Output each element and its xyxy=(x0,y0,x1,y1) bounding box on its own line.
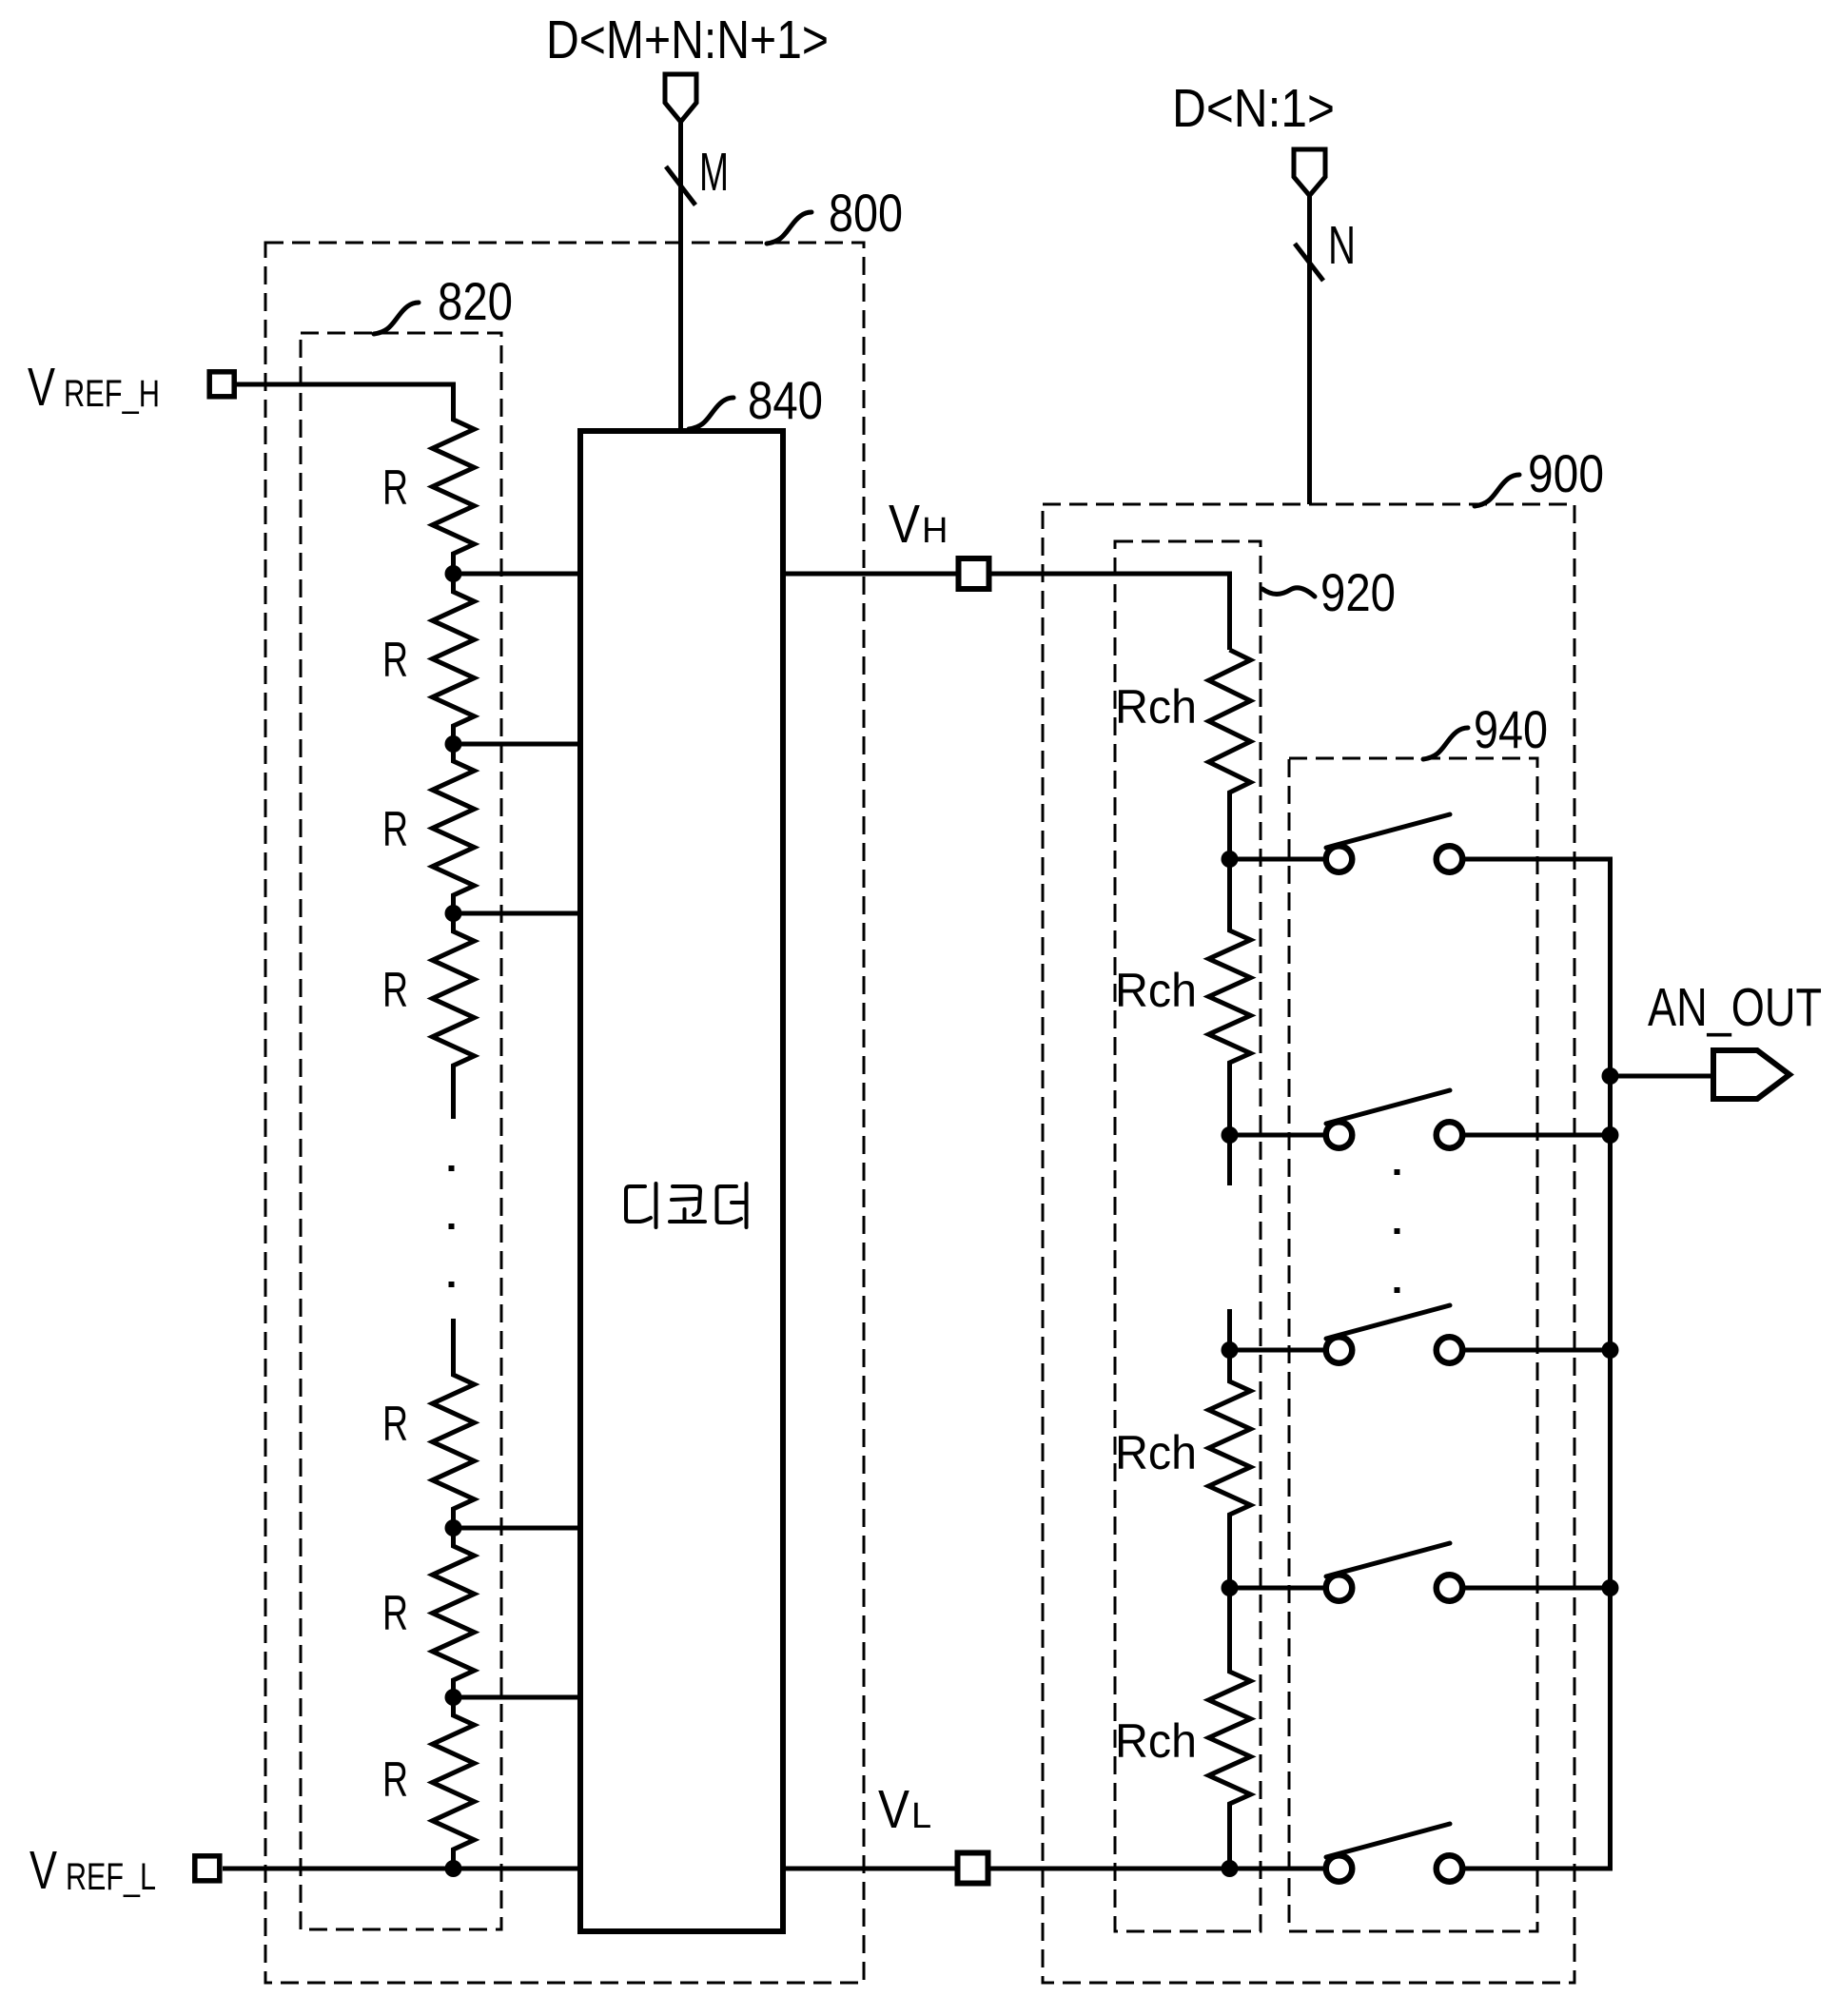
wire VL rail xyxy=(786,1867,1323,1871)
switch SW2 xyxy=(1230,1133,1327,1138)
terminal square VREF_L xyxy=(195,1856,220,1881)
wire Rch stub below node 2 xyxy=(1227,1135,1232,1185)
switch SW2 lever xyxy=(1326,1090,1450,1124)
svg-text:R: R xyxy=(382,802,408,857)
svg-text:R: R xyxy=(382,1586,408,1641)
svg-text:R: R xyxy=(382,1752,408,1808)
junction dot bus row 2 xyxy=(1602,1126,1619,1144)
bus width slash M xyxy=(666,166,695,206)
bus width slash N xyxy=(1295,244,1323,281)
switch SW5 lever xyxy=(1326,1824,1450,1857)
svg-text:REF_H: REF_H xyxy=(64,373,160,415)
output port arrow AN_OUT xyxy=(1713,1050,1789,1099)
resistor R3 xyxy=(433,743,475,914)
svg-text:AN_OUT: AN_OUT xyxy=(1648,977,1822,1038)
resistor R5 xyxy=(433,1319,475,1528)
wire SW1 to output bus xyxy=(1462,857,1613,862)
switch SW4 xyxy=(1230,1586,1327,1591)
resistor Rch3 xyxy=(1209,1350,1251,1588)
resistor R7 xyxy=(433,1697,475,1869)
resistor Rch2 xyxy=(1209,859,1251,1135)
junction dot Rch node row 2 xyxy=(1222,1126,1239,1144)
resistor R2 xyxy=(433,574,475,745)
decoder text 디코더 xyxy=(626,1184,747,1227)
wire M bus vertical xyxy=(678,121,683,430)
svg-text:V: V xyxy=(28,357,55,418)
label 820 xyxy=(374,303,419,334)
label 940 xyxy=(1423,728,1468,759)
terminal square VL xyxy=(958,1853,988,1884)
svg-text:H: H xyxy=(922,511,948,551)
switch SW1 xyxy=(1230,857,1327,862)
wire VREF_L rail xyxy=(223,1867,581,1871)
svg-text:V: V xyxy=(889,494,920,555)
terminal square VH xyxy=(959,558,989,589)
svg-text:920: 920 xyxy=(1320,562,1396,622)
svg-text:Rch: Rch xyxy=(1115,1714,1197,1768)
svg-text:R: R xyxy=(382,460,408,516)
junction dot node 5 xyxy=(445,1689,462,1706)
wire tap node 3 to decoder xyxy=(454,911,582,916)
switch SW4 lever xyxy=(1326,1543,1450,1576)
switch SW5 xyxy=(1230,1867,1327,1871)
svg-text:D<M+N:N+1>: D<M+N:N+1> xyxy=(546,10,829,70)
wire tap node 5 to decoder xyxy=(454,1695,582,1700)
junction dot node 2 xyxy=(445,735,462,753)
wire output bus vertical xyxy=(1608,859,1613,1869)
svg-text:800: 800 xyxy=(829,183,903,243)
wire VH rail xyxy=(786,574,1230,650)
ellipsis resistor string xyxy=(449,1165,455,1171)
decoder block 840 xyxy=(580,431,783,1931)
svg-text:V: V xyxy=(878,1779,909,1840)
junction dot Rch node row 4 xyxy=(1222,1579,1239,1596)
resistor R1 xyxy=(433,384,475,573)
switch SW3 xyxy=(1230,1348,1327,1353)
junction dot Rch node row 3 xyxy=(1222,1341,1239,1359)
svg-text:V: V xyxy=(29,1840,57,1901)
wire tap node 1 to decoder xyxy=(454,572,582,577)
dashed box 820 (resistor string) xyxy=(301,333,501,1929)
wire SW5 to output bus xyxy=(1462,1867,1613,1871)
wire tap node 2 to decoder xyxy=(454,742,582,747)
svg-text:M: M xyxy=(699,142,729,203)
wire VREF_H xyxy=(233,384,454,420)
svg-text:N: N xyxy=(1328,215,1356,276)
svg-text:R: R xyxy=(382,963,408,1018)
bus terminal connector D<M+N:N+1> xyxy=(665,74,696,122)
wire Rch stub above node 3 xyxy=(1227,1309,1232,1350)
wire SW2 to output bus xyxy=(1462,1133,1613,1138)
svg-text:R: R xyxy=(382,1397,408,1452)
junction dot Rch node row 1 xyxy=(1222,851,1239,868)
svg-text:R: R xyxy=(382,633,408,688)
svg-text:L: L xyxy=(911,1796,931,1836)
label 800 xyxy=(767,212,811,244)
wire N bus vertical xyxy=(1307,195,1312,504)
label 840 xyxy=(689,398,733,429)
ellipsis switch column xyxy=(1395,1169,1400,1175)
junction dot VL / Rch chain xyxy=(1222,1860,1239,1877)
wire SW4 to output bus xyxy=(1462,1586,1613,1591)
junction dot node 1 xyxy=(445,565,462,582)
svg-text:900: 900 xyxy=(1528,443,1604,503)
resistor Rch4 xyxy=(1209,1588,1251,1869)
junction dot bus row 3 xyxy=(1602,1341,1619,1359)
junction dot node 4 xyxy=(445,1519,462,1536)
svg-text:840: 840 xyxy=(748,370,823,430)
svg-text:Rch: Rch xyxy=(1115,680,1197,734)
svg-text:Rch: Rch xyxy=(1115,964,1197,1017)
terminal square VREF_H xyxy=(209,372,234,397)
dashed box 940 (switch array) xyxy=(1289,758,1537,1931)
dashed box 900 (second stage) xyxy=(1043,504,1574,1983)
resistor Rch1 xyxy=(1209,650,1251,859)
dashed box 800 (DAC first stage) xyxy=(265,243,864,1983)
svg-text:D<N:1>: D<N:1> xyxy=(1172,78,1335,139)
switch SW3 lever xyxy=(1326,1305,1450,1339)
wire tap node 4 to decoder xyxy=(454,1526,582,1531)
wire AN_OUT xyxy=(1611,1074,1714,1079)
junction dot node 3 xyxy=(445,905,462,922)
svg-text:Rch: Rch xyxy=(1115,1426,1197,1479)
junction dot bus row 4 xyxy=(1602,1579,1619,1596)
resistor R6 xyxy=(433,1528,475,1699)
svg-text:940: 940 xyxy=(1474,699,1548,759)
bus terminal connector D<N:1> xyxy=(1294,149,1325,196)
svg-text:820: 820 xyxy=(438,271,513,331)
dashed box 920 (Rch chain) xyxy=(1115,541,1261,1931)
label 920 xyxy=(1262,588,1315,597)
wire SW3 to output bus xyxy=(1462,1348,1613,1353)
switch SW1 lever xyxy=(1326,814,1450,848)
svg-text:REF_L: REF_L xyxy=(66,1856,156,1898)
resistor R4 xyxy=(433,913,475,1119)
junction dot VREF_L / string xyxy=(445,1860,462,1877)
label 900 xyxy=(1475,475,1519,506)
junction dot AN_OUT xyxy=(1602,1067,1619,1085)
